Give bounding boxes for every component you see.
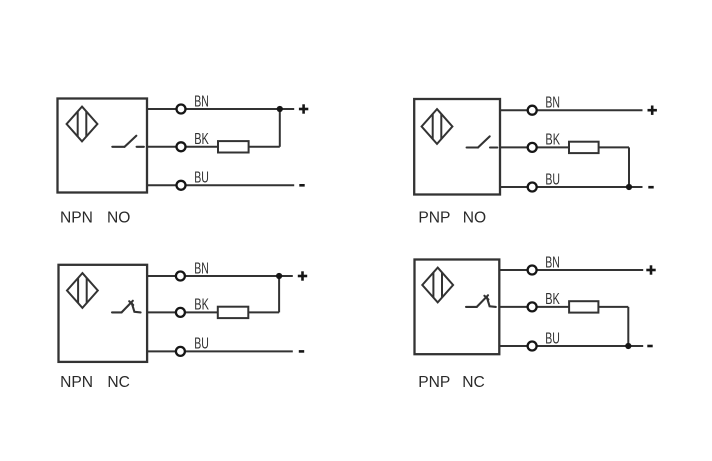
- terminal circle BU (NPN NC): [176, 347, 185, 356]
- svg-text:NO: NO: [107, 210, 130, 227]
- svg-text:BN: BN: [545, 255, 560, 272]
- terminal circle BU (PNP NC): [528, 342, 537, 351]
- junction dot on BN (NPN NO): [277, 106, 283, 112]
- wire resistor to corner (PNP NO): [599, 146, 629, 148]
- junction dot on BU (PNP NO): [626, 184, 632, 190]
- wire BN (NPN NO): [147, 108, 294, 110]
- terminal circle BU (NPN NO): [177, 181, 186, 190]
- wire BN (PNP NO): [500, 109, 643, 111]
- minus terminal (NPN NC): [299, 350, 304, 353]
- svg-text:BK: BK: [545, 132, 560, 149]
- NO switch contact (NPN NO): [112, 136, 144, 147]
- wire BK (NPN NC): [147, 311, 218, 313]
- svg-text:BK: BK: [194, 297, 209, 314]
- sensor box (NPN NC): [59, 265, 148, 362]
- svg-text:BN: BN: [194, 261, 209, 278]
- terminal circle BK (PNP NO): [528, 143, 537, 152]
- wire BU (NPN NC): [147, 350, 293, 352]
- terminal circle BN (NPN NC): [176, 272, 185, 281]
- terminal circle BU (PNP NO): [528, 183, 537, 192]
- junction dot on BU (PNP NC): [625, 343, 631, 349]
- svg-text:BU: BU: [194, 170, 209, 187]
- svg-text:NC: NC: [462, 374, 485, 391]
- NC switch contact (NPN NC): [112, 301, 141, 313]
- wire BU (PNP NO): [500, 186, 643, 188]
- wire BK (PNP NO): [500, 146, 569, 148]
- svg-text:PNP: PNP: [418, 374, 450, 391]
- plus terminal (NPN NO): [299, 104, 308, 113]
- terminal circle BN (PNP NO): [528, 106, 537, 115]
- sensor box (PNP NC): [415, 260, 500, 355]
- vertical wire to BU (PNP NO): [628, 147, 630, 187]
- svg-text:NC: NC: [107, 374, 130, 391]
- svg-text:BU: BU: [545, 171, 560, 188]
- wire BU (NPN NO): [147, 184, 294, 186]
- plus terminal (PNP NC): [646, 265, 655, 274]
- svg-text:NO: NO: [463, 210, 486, 227]
- wire BN (NPN NC): [147, 275, 293, 277]
- terminal circle BK (NPN NC): [176, 308, 185, 317]
- wire BN (PNP NC): [499, 269, 643, 271]
- minus terminal (NPN NO): [299, 184, 304, 187]
- plus terminal (PNP NO): [648, 106, 657, 115]
- svg-text:BU: BU: [545, 330, 560, 347]
- wire resistor to corner (NPN NO): [249, 146, 280, 148]
- plus terminal (NPN NC): [298, 271, 307, 280]
- junction dot on BN (NPN NC): [276, 273, 282, 279]
- vertical wire to BN (NPN NC): [278, 276, 280, 312]
- NC switch contact (PNP NC): [466, 295, 496, 307]
- proximity-sensor symbol (NPN NC): [67, 273, 98, 308]
- sensor box (NPN NO): [58, 99, 148, 193]
- resistor load (NPN NO): [218, 141, 249, 152]
- proximity-sensor symbol (PNP NC): [422, 268, 453, 303]
- svg-text:NPN: NPN: [60, 210, 93, 227]
- minus terminal (PNP NC): [647, 345, 652, 348]
- svg-text:PNP: PNP: [418, 210, 450, 227]
- sensor box (PNP NO): [414, 99, 500, 195]
- terminal circle BN (PNP NC): [528, 266, 537, 275]
- wire BU (PNP NC): [499, 345, 643, 347]
- resistor load (PNP NO): [569, 142, 599, 153]
- terminal circle BK (NPN NO): [177, 142, 186, 151]
- resistor load (NPN NC): [218, 307, 249, 318]
- wire BK (NPN NO): [147, 146, 218, 148]
- wire BK (PNP NC): [499, 306, 569, 308]
- svg-text:BN: BN: [545, 95, 560, 112]
- svg-text:BU: BU: [194, 336, 209, 353]
- terminal circle BK (PNP NC): [528, 302, 537, 311]
- vertical wire to BU (PNP NC): [627, 307, 629, 346]
- resistor load (PNP NC): [569, 301, 598, 312]
- svg-text:BK: BK: [194, 131, 209, 148]
- svg-text:BN: BN: [194, 94, 209, 111]
- NO switch contact (PNP NO): [467, 136, 498, 147]
- proximity-sensor symbol (NPN NO): [67, 107, 98, 142]
- minus terminal (PNP NO): [648, 186, 653, 189]
- wire resistor to corner (PNP NC): [598, 306, 628, 308]
- terminal circle BN (NPN NO): [177, 105, 186, 114]
- proximity-sensor symbol (PNP NO): [422, 109, 453, 144]
- svg-text:NPN: NPN: [60, 374, 93, 391]
- vertical wire to BN (NPN NO): [279, 109, 281, 147]
- wire resistor to corner (NPN NC): [248, 311, 279, 313]
- svg-text:BK: BK: [545, 291, 560, 308]
